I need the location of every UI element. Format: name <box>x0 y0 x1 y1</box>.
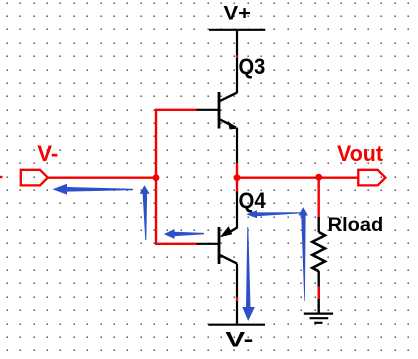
transistor Q4 emitter lead (black) <box>236 192 238 229</box>
current arrow A6 down along Q4 collector <box>242 227 255 321</box>
transistor Q3 collector diagonal <box>220 93 238 102</box>
transistor Q3 emitter arrow <box>228 121 238 130</box>
svg-text:V+: V+ <box>224 2 252 24</box>
resistor Rload lead bottom <box>318 271 320 313</box>
transistor Q3 base bar <box>218 92 221 129</box>
node Rload junction dot <box>315 174 322 181</box>
current arrow A3 left above Q4 base wire <box>164 229 204 239</box>
wire red output node to Vout port <box>237 176 358 178</box>
power rail V- bottom bar <box>208 324 265 326</box>
wire V+ lead down to Q3 collector <box>236 30 238 93</box>
wire Q4 collector down <box>236 264 238 325</box>
ground bar 3 <box>314 322 322 324</box>
wire red Q3 emitter to output node <box>236 163 238 193</box>
svg-text:V-: V- <box>37 141 58 166</box>
current arrow A5 up beside Rload <box>299 207 308 301</box>
current arrow A4 left toward Q4 emitter <box>246 210 300 218</box>
transistor Q4 emitter diagonal <box>225 228 237 235</box>
wire red node A down to Q4 base <box>156 178 197 244</box>
transistor Q4 emitter arrow <box>220 226 233 237</box>
wire red stub V+ to Q3 <box>236 55 238 57</box>
wire red Rload bottom <box>318 286 320 299</box>
current arrow A2 up beside node A <box>140 185 150 240</box>
wire red stub Q4 collector <box>236 298 238 302</box>
svg-text:Vout: Vout <box>337 141 383 166</box>
power rail V+ bar <box>209 29 265 31</box>
transistor Q4 base lead <box>196 243 219 245</box>
transistor Q3 emitter diagonal <box>220 119 237 127</box>
wire red Rload top <box>318 178 320 218</box>
node A junction dot <box>153 174 160 181</box>
resistor Rload zigzag <box>312 232 325 271</box>
wire red stub at image left edge <box>0 176 3 178</box>
transistor Q4 collector diagonal <box>220 255 238 264</box>
wire red node A up to Q3 base <box>156 110 197 178</box>
port V- input <box>21 170 48 186</box>
current arrow A1 left under input wire <box>53 184 134 195</box>
resistor Rload lead top <box>318 217 320 232</box>
port Vout <box>358 170 385 186</box>
svg-text:Q3: Q3 <box>239 54 266 79</box>
transistor Q3 base lead <box>196 109 219 111</box>
ground bar 2 <box>310 317 329 319</box>
svg-text:Rload: Rload <box>328 215 384 236</box>
wire Q3 emitter down (black) <box>236 128 238 164</box>
svg-text:Q4: Q4 <box>239 188 267 213</box>
svg-text:V-: V- <box>225 329 253 352</box>
wire red main left: port to node A <box>48 176 157 178</box>
ground bar 1 <box>304 313 333 315</box>
output node junction dot <box>234 174 241 181</box>
transistor Q4 base bar <box>218 227 221 264</box>
